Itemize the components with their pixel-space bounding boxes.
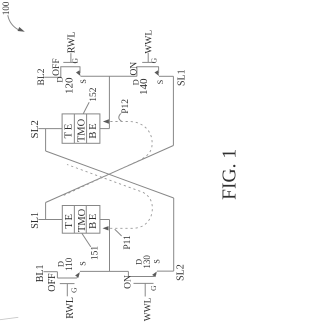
svg-text:D: D [133,259,143,265]
svg-text:TE: TE [64,122,75,138]
svg-text:SL1: SL1 [176,69,187,86]
svg-text:110: 110 [64,257,74,271]
svg-text:S: S [79,261,88,265]
svg-text:130: 130 [142,255,152,269]
svg-text:TMO: TMO [76,118,87,142]
svg-text:SL2: SL2 [29,120,41,138]
svg-text:SL1: SL1 [30,212,41,229]
svg-text:RWL: RWL [65,297,76,319]
svg-text:BL2: BL2 [37,68,47,85]
svg-text:TMO: TMO [77,208,88,232]
svg-text:ON: ON [124,275,134,289]
svg-text:TE: TE [64,212,75,228]
svg-text:152: 152 [89,87,99,102]
svg-text:S: S [79,79,88,83]
svg-text:BE: BE [88,212,99,229]
svg-text:S: S [153,259,162,263]
svg-text:D: D [131,79,141,85]
svg-text:WWL: WWL [143,297,153,321]
svg-text:WWL: WWL [145,30,155,54]
svg-text:OFF: OFF [47,273,58,292]
svg-text:G: G [69,287,78,293]
svg-text:100: 100 [1,1,11,15]
svg-text:BE: BE [88,122,99,139]
svg-text:S: S [156,80,165,84]
svg-text:ON: ON [129,62,139,76]
svg-text:D: D [55,261,65,267]
svg-text:RWL: RWL [66,32,77,54]
svg-text:G: G [149,57,158,63]
svg-text:P11: P11 [123,235,133,250]
svg-text:BL1: BL1 [35,265,46,283]
svg-text:D: D [55,77,65,83]
svg-text:FIG. 1: FIG. 1 [219,149,240,200]
svg-text:P12: P12 [121,99,131,114]
svg-text:120: 120 [64,77,76,94]
svg-text:G: G [71,58,80,64]
svg-text:151: 151 [91,246,101,261]
svg-text:G: G [149,285,158,291]
svg-text:SL2: SL2 [175,264,186,281]
svg-text:OFF: OFF [52,58,62,75]
